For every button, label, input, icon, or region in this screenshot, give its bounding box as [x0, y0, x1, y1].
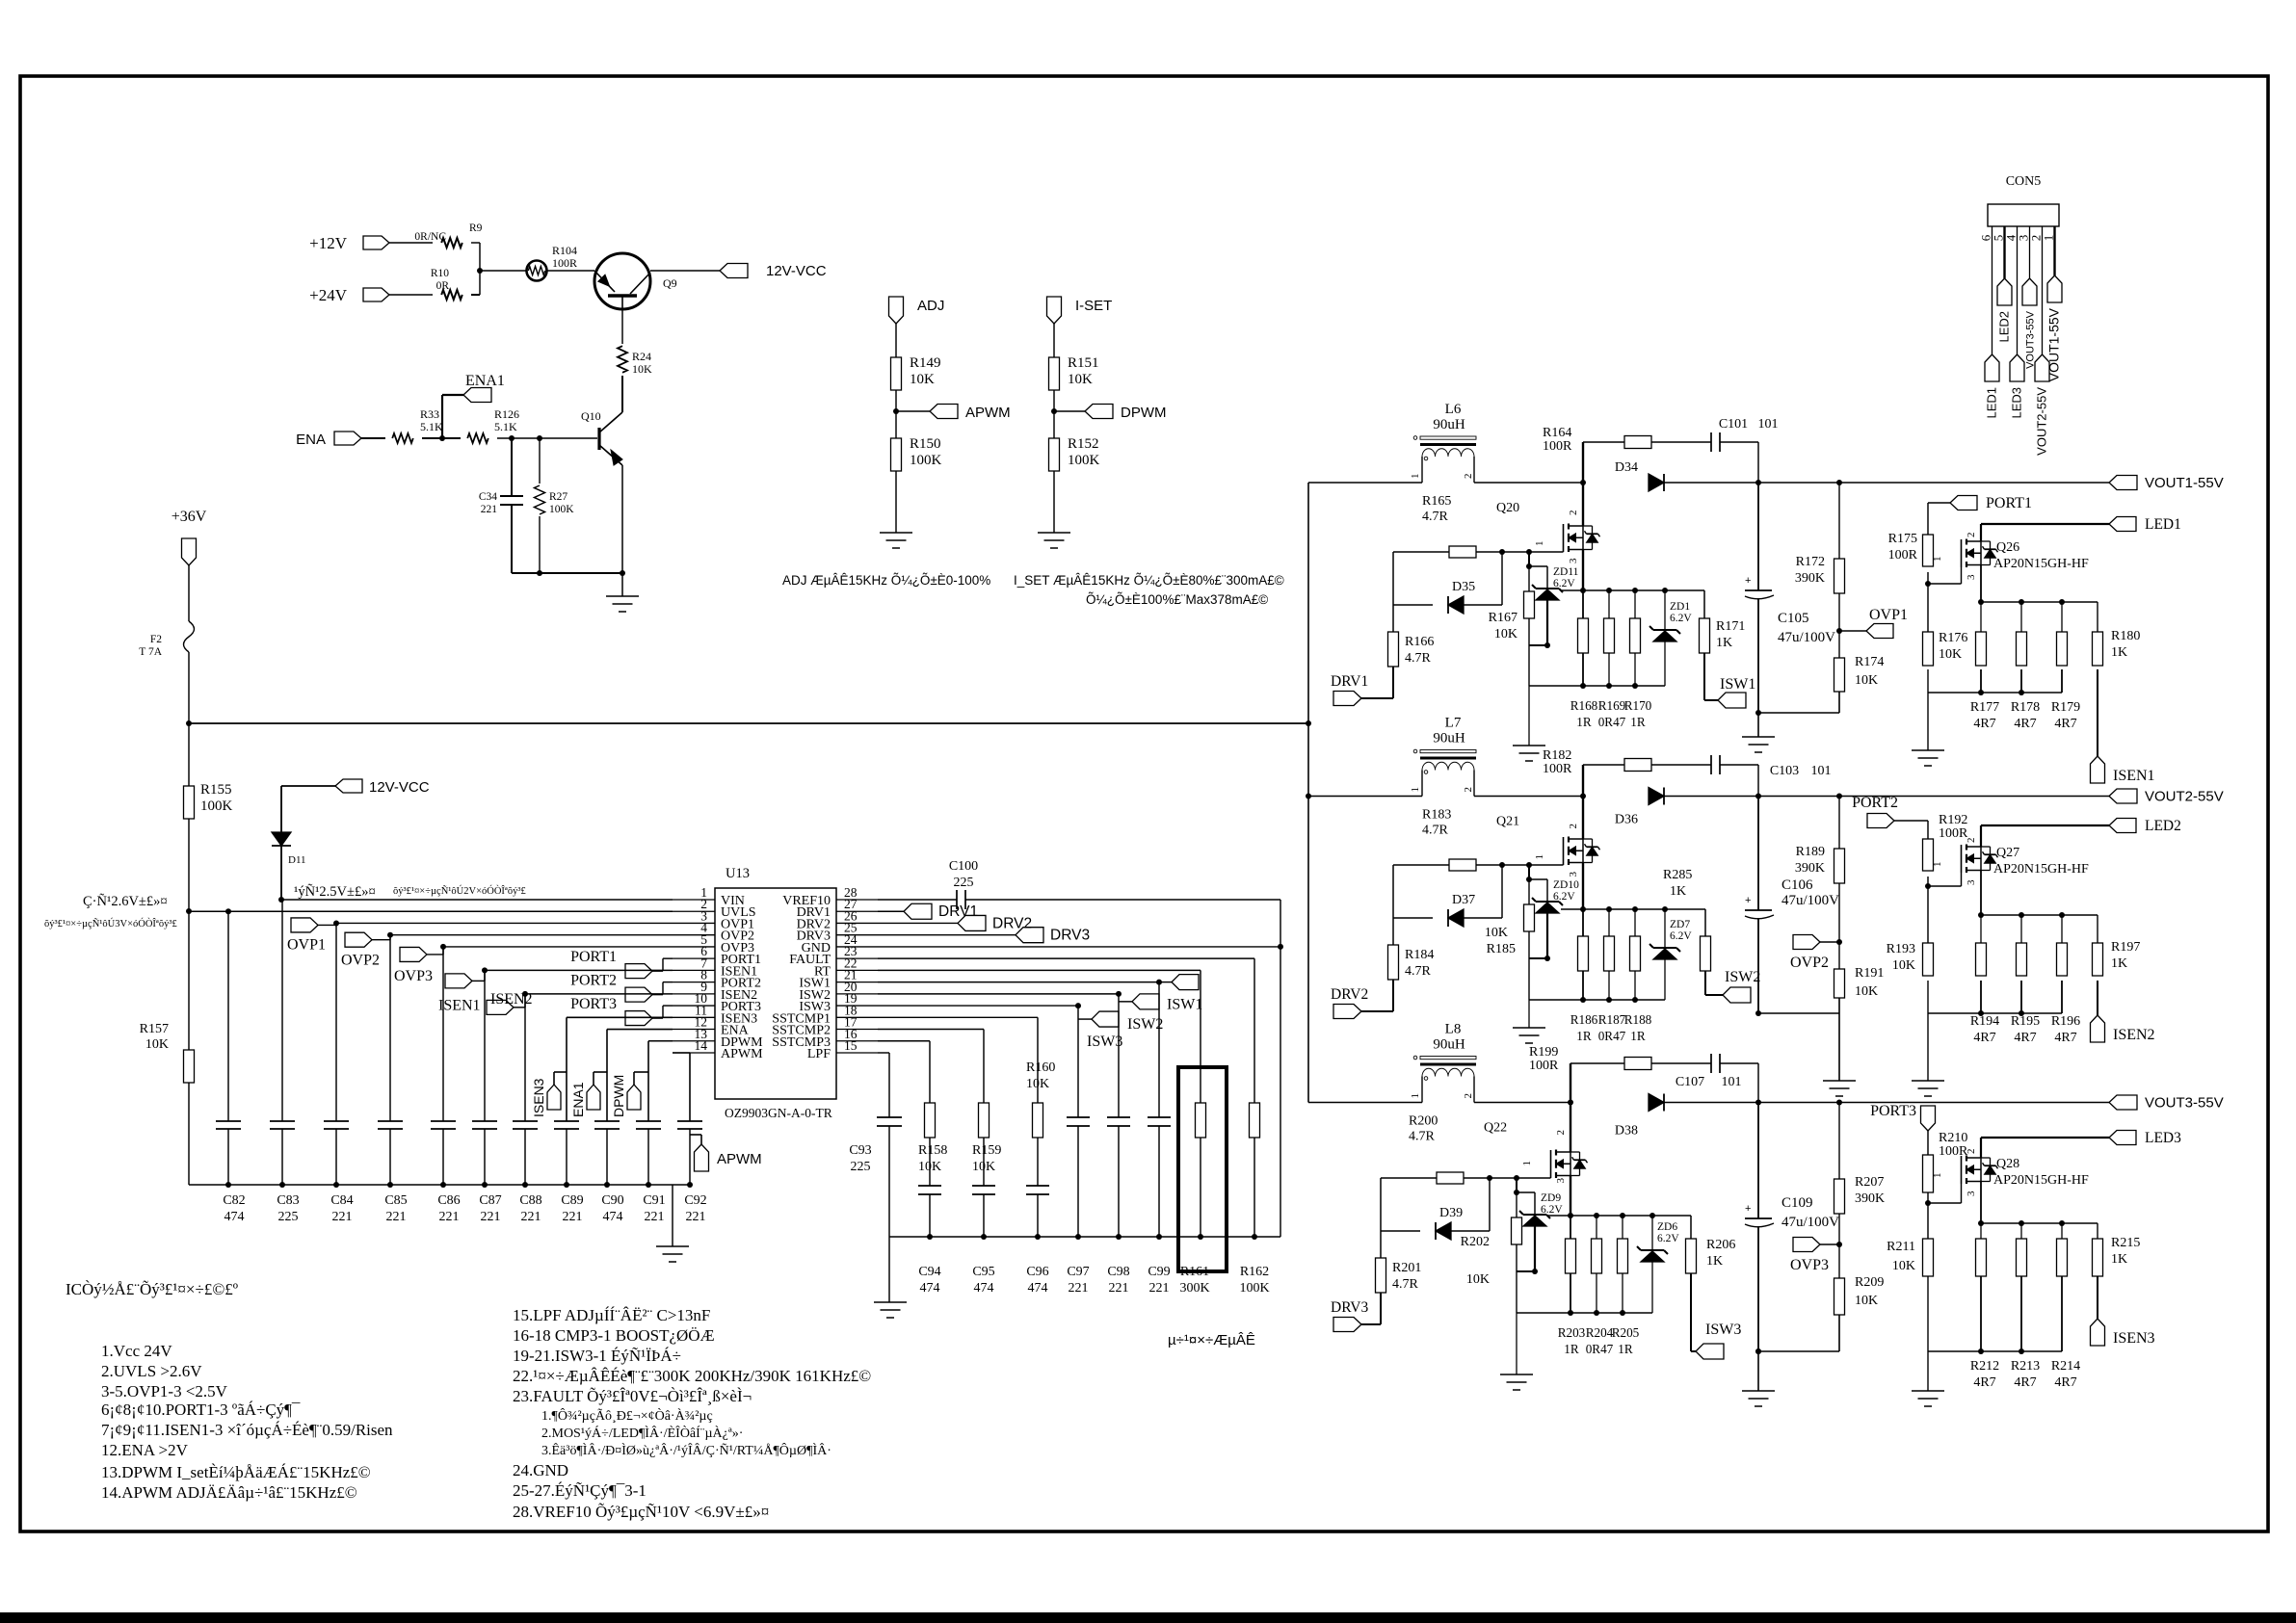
- node bus r2: [1606, 588, 1612, 593]
- svg-text:R149: R149: [910, 355, 941, 371]
- node ISEN1 column: [482, 967, 488, 973]
- diode D34: [1615, 460, 1664, 491]
- wire R180 to ISEN port: [2097, 669, 2098, 756]
- svg-text:100R: 100R: [1939, 1144, 1968, 1159]
- wire output column down: [1757, 483, 1759, 590]
- wire I-SET to R151: [1053, 324, 1055, 357]
- svg-text:C88: C88: [519, 1193, 541, 1208]
- svg-text:0R/NC: 0R/NC: [414, 231, 446, 243]
- wire PORT3 to pin: [652, 1006, 673, 1018]
- svg-text:2: 2: [1568, 510, 1579, 516]
- port PORT3 (channel): [1870, 1103, 1935, 1155]
- port VOUT2-55V: [2109, 789, 2224, 805]
- capacitor C103 101: [1711, 755, 1832, 778]
- wire pin16 to R158: [878, 1041, 930, 1103]
- svg-text:390K: 390K: [1795, 571, 1825, 586]
- svg-text:2: 2: [1568, 824, 1579, 829]
- resistor R158 10K: [918, 1103, 947, 1174]
- svg-text:221: 221: [1149, 1281, 1170, 1296]
- wire pin18 to R160: [878, 1017, 1038, 1103]
- node UVLS at R155/R157: [186, 908, 192, 914]
- svg-text:C87: C87: [479, 1193, 501, 1208]
- svg-text:C103: C103: [1770, 764, 1799, 778]
- node C34 tap: [509, 435, 515, 441]
- svg-text:225: 225: [851, 1160, 871, 1174]
- wire R161 to rail: [1200, 1138, 1201, 1237]
- svg-text:23.FAULT Õý³£Îª0V£¬Òì³£Îª¸ß×è: 23.FAULT Õý³£Îª0V£¬Òì³£Îª¸ß×èÌ¬: [513, 1387, 752, 1405]
- wire lower bus: [1517, 1310, 1652, 1316]
- pin 8 (PORT2) of U13: [673, 968, 761, 991]
- wire R9 to node: [471, 243, 480, 295]
- text pin note R: 2.MOS¹ýÁ÷/LE: [541, 1425, 743, 1441]
- label sense resistors: [1570, 698, 1652, 729]
- node OVP tap: [1836, 1242, 1842, 1247]
- svg-text:C98: C98: [1107, 1265, 1129, 1279]
- svg-text:474: 474: [603, 1210, 623, 1224]
- svg-text:474: 474: [1028, 1281, 1048, 1296]
- svg-text:R10: R10: [431, 268, 449, 279]
- svg-text:2: 2: [1966, 533, 1977, 538]
- svg-text:PORT1: PORT1: [570, 949, 617, 965]
- svg-text:10K: 10K: [1026, 1077, 1049, 1091]
- svg-text:225: 225: [278, 1210, 299, 1224]
- svg-text:10K: 10K: [1485, 926, 1508, 940]
- wire bottom bus (LED): [1928, 1010, 2062, 1016]
- wire OVP3 port to column: [427, 947, 673, 955]
- zener ZD11 6.2V (gate): [1532, 566, 1579, 600]
- capacitor C86 221: [431, 947, 461, 1224]
- svg-text:R175: R175: [1888, 532, 1917, 546]
- svg-text:C95: C95: [972, 1265, 994, 1279]
- svg-text:APWM: APWM: [965, 405, 1011, 421]
- svg-text:ZD7: ZD7: [1670, 919, 1690, 930]
- svg-text:R160: R160: [1026, 1060, 1055, 1075]
- capacitor C91 221: [636, 1121, 666, 1224]
- svg-text:R178: R178: [2011, 700, 2040, 715]
- junction rail x1302: [1252, 1234, 1257, 1240]
- svg-text:µ÷¹¤×÷ÆµÂÊ: µ÷¹¤×÷ÆµÂÊ: [1168, 1332, 1255, 1348]
- resistor R160 10K: [1026, 1060, 1055, 1138]
- wire R176 to bottom bus: [1927, 669, 1929, 750]
- wire FAULT pin23 to R162: [878, 958, 1254, 1103]
- svg-text:474: 474: [974, 1281, 994, 1296]
- svg-text:474: 474: [224, 1210, 245, 1224]
- wire ISEN2 port to column: [514, 994, 673, 1008]
- wire VREF10 pin28: [878, 899, 957, 901]
- port OVP3 (left): [394, 947, 433, 984]
- node drain junction ch1: [1580, 480, 1586, 485]
- pin 23 (FAULT) of U13: [789, 944, 878, 967]
- text I_SET frequency note line1: [1014, 573, 1284, 588]
- wire R189 to OVP node: [1838, 883, 1840, 969]
- junction rail C86: [440, 1182, 446, 1188]
- resistor R182 100R: [1543, 748, 1651, 776]
- pin 19 (ISW3) of U13: [799, 991, 878, 1014]
- pin 26 (DRV2) of U13: [797, 908, 878, 931]
- resistor R210 100R: [1923, 1131, 1969, 1192]
- port VOUT3-55V (CON5): [2022, 278, 2037, 369]
- resistor R188 (sense): [1630, 909, 1641, 1000]
- wire node to DPWM port: [1054, 410, 1085, 412]
- node bus r3: [1632, 906, 1638, 912]
- svg-text:474: 474: [920, 1281, 940, 1296]
- wire link to ground ch1: [1757, 713, 1759, 737]
- node DPWM divider: [1051, 408, 1057, 414]
- wire link to ground ch2: [1838, 1013, 1840, 1081]
- wire MOSFET source to bus: [1580, 863, 1586, 913]
- svg-text:+36V: +36V: [172, 509, 207, 525]
- resistor R205 (sense): [1618, 1216, 1628, 1313]
- pin 3 (OVP1) of U13: [673, 908, 754, 931]
- svg-text:LED3: LED3: [2010, 387, 2024, 419]
- svg-text:R151: R151: [1068, 355, 1099, 371]
- svg-text:6.2V: 6.2V: [1553, 891, 1575, 903]
- port ISEN2 (channel): [2091, 1015, 2155, 1043]
- port ISEN3 (channel): [2091, 1319, 2155, 1347]
- svg-text:OVP1: OVP1: [1869, 607, 1908, 623]
- node +36V bus junction: [186, 720, 192, 726]
- svg-text:Q21: Q21: [1496, 815, 1519, 829]
- svg-text:R211: R211: [1887, 1240, 1915, 1254]
- highlight box around R161: [1178, 1067, 1227, 1271]
- labels parallel 4R7 resistors: [1970, 1014, 2080, 1045]
- junction rail C91: [646, 1182, 651, 1188]
- svg-text:2.MOS¹ýÁ÷/LED¶ÌÂ·/ÈÎÒâÍ¨µÀ¿ª»·: 2.MOS¹ýÁ÷/LED¶ÌÂ·/ÈÎÒâÍ¨µÀ¿ª»·: [541, 1425, 743, 1441]
- svg-text:R212: R212: [1970, 1359, 1999, 1374]
- wire D34 to VOUT junction: [1664, 482, 1839, 484]
- node bus r2: [1594, 1213, 1599, 1218]
- svg-text:C100: C100: [949, 859, 978, 874]
- node ISEN2 column: [522, 991, 528, 997]
- junction +36V bus: [1306, 720, 1311, 726]
- label C94 474: [918, 1265, 940, 1296]
- wire source bus (LED): [1978, 564, 2098, 605]
- svg-text:100R: 100R: [552, 256, 577, 270]
- svg-text:101: 101: [1811, 764, 1832, 778]
- port ISW3 (IC side): [1087, 1011, 1122, 1050]
- label sense resistors: [1570, 1012, 1652, 1043]
- port DRV2 (channel): [1331, 986, 1368, 1019]
- resistor R201 4.7R: [1376, 1258, 1422, 1293]
- svg-text:AP20N15GH-HF: AP20N15GH-HF: [1993, 862, 2089, 877]
- capacitor C87 221: [472, 970, 502, 1224]
- svg-text:R196: R196: [2051, 1014, 2080, 1029]
- transistor Q9 (PNP): [594, 253, 677, 309]
- svg-text:4R7: 4R7: [1973, 1375, 1995, 1390]
- inductor L6 90uH: [1410, 402, 1476, 483]
- svg-text:221: 221: [521, 1210, 541, 1224]
- junction rail x1077: [1035, 1234, 1041, 1240]
- ground below R152: [1038, 533, 1070, 548]
- pin 1 of CON5: [2042, 235, 2056, 242]
- svg-text:R195: R195: [2011, 1014, 2040, 1029]
- port DPWM (hanging): [611, 1072, 648, 1117]
- pin 10 (PORT3) of U13: [673, 991, 761, 1014]
- wire C100 to GND column: [965, 900, 1280, 1237]
- svg-text:1: 1: [1521, 1161, 1533, 1166]
- svg-text:C90: C90: [601, 1193, 623, 1208]
- wire R159 to cap: [983, 1138, 985, 1186]
- svg-text:221: 221: [386, 1210, 407, 1224]
- svg-text:1: 1: [1410, 787, 1421, 793]
- svg-text:ISEN2: ISEN2: [2113, 1027, 2155, 1043]
- svg-text:AP20N15GH-HF: AP20N15GH-HF: [1993, 557, 2089, 571]
- svg-text:1K: 1K: [1716, 636, 1732, 650]
- svg-text:100R: 100R: [1939, 826, 1968, 841]
- resistor R186 (sense): [1578, 909, 1589, 1000]
- pin 7 (ISEN1) of U13: [673, 955, 757, 979]
- ground (output cap) ch3: [1742, 1391, 1775, 1406]
- svg-text:14.APWM ADJÄ£Äâµ÷¹â£¨15KHz£©: 14.APWM ADJÄ£Äâµ÷¹â£¨15KHz£©: [101, 1483, 357, 1502]
- resistor R202 10K (gate): [1461, 1192, 1522, 1287]
- port PORT1 (left): [570, 949, 652, 979]
- svg-text:R169: R169: [1598, 698, 1626, 713]
- port ENA1: [463, 373, 505, 403]
- wire C34/R27 bottoms: [512, 570, 625, 576]
- wire R157 to ground rail: [188, 1083, 190, 1185]
- wire R206 to ISW port: [1691, 1273, 1696, 1351]
- text pin note R: 1.¶Ô¾²µçÃô¸Ð: [541, 1407, 713, 1424]
- svg-text:C107: C107: [1676, 1075, 1704, 1089]
- svg-text:10K: 10K: [632, 362, 652, 376]
- svg-text:C84: C84: [330, 1193, 353, 1208]
- wire gate line: [1393, 551, 1564, 553]
- node gate junction 1: [1499, 862, 1505, 868]
- wire R171 to ISW port: [1704, 653, 1718, 700]
- wire R151 to DPWM node: [1053, 390, 1055, 438]
- capacitor C109 47u/100V (electrolytic): [1745, 1195, 1839, 1230]
- svg-text:ENA1: ENA1: [570, 1082, 586, 1117]
- capacitor below R160: [1026, 1186, 1049, 1237]
- svg-text:R24: R24: [632, 350, 651, 363]
- wire PORT2 to pin: [652, 982, 673, 995]
- svg-text:R182: R182: [1543, 748, 1571, 763]
- svg-text:221: 221: [439, 1210, 460, 1224]
- svg-text:Ç·Ñ¹2.6V±£»¤: Ç·Ñ¹2.6V±£»¤: [83, 894, 168, 909]
- port I-SET: [1047, 297, 1113, 324]
- pin 6 of CON5: [1979, 234, 1993, 241]
- svg-text:PORT2: PORT2: [570, 973, 617, 989]
- svg-text:AP20N15GH-HF: AP20N15GH-HF: [1993, 1173, 2089, 1188]
- svg-text:100R: 100R: [1543, 762, 1572, 776]
- svg-text:1K: 1K: [1670, 884, 1686, 899]
- port LED3: [2109, 1130, 2181, 1146]
- port DRV3 (channel): [1331, 1299, 1368, 1332]
- svg-text:ISW1: ISW1: [1720, 676, 1755, 693]
- svg-text:C34: C34: [479, 491, 497, 503]
- svg-text:10K: 10K: [1939, 647, 1962, 662]
- wire node to APWM port: [896, 410, 930, 412]
- svg-text:R184: R184: [1405, 948, 1434, 962]
- svg-text:C83: C83: [277, 1193, 299, 1208]
- wire left column: [1392, 552, 1394, 632]
- wire column down to cap ENA1: [606, 1030, 608, 1121]
- resistor R152 100K: [1049, 436, 1100, 471]
- port VOUT3-55V: [2109, 1095, 2224, 1112]
- wire pin20 to ISW2 column: [878, 993, 1119, 995]
- svg-text:ISW2: ISW2: [1725, 969, 1760, 985]
- resistor R171 (to ISW): [1700, 590, 1746, 653]
- resistor R285 (to ISW): [1663, 868, 1711, 971]
- svg-text:C97: C97: [1067, 1265, 1089, 1279]
- svg-text:47u/100V: 47u/100V: [1781, 1215, 1839, 1230]
- port LED1 (CON5): [1985, 354, 2000, 419]
- svg-text:100R: 100R: [1888, 548, 1918, 563]
- svg-text:R191: R191: [1855, 966, 1884, 981]
- ground (LED cluster): [1912, 1391, 1944, 1406]
- pin 28 (VREF10) of U13: [782, 885, 878, 908]
- port LED2 (CON5): [1997, 278, 2013, 343]
- svg-text:Q20: Q20: [1496, 501, 1519, 515]
- svg-text:1R: 1R: [1630, 715, 1646, 729]
- junction rail x1203: [1156, 1234, 1162, 1240]
- node OVP1 column: [333, 920, 339, 926]
- node gate junction 1: [1499, 549, 1505, 555]
- svg-text:10K: 10K: [145, 1037, 169, 1052]
- svg-text:4.7R: 4.7R: [1409, 1130, 1436, 1144]
- node output cap column: [1755, 794, 1761, 799]
- resistor R195 4R7: [2017, 915, 2027, 1013]
- wire bottom bus (LED): [1928, 690, 2062, 695]
- diode D35 (gate discharge): [1393, 580, 1502, 614]
- svg-text:R172: R172: [1796, 555, 1825, 569]
- port PORT1 (channel): [1928, 495, 2032, 535]
- wire R150 to ground: [895, 471, 897, 533]
- port ISEN2 (left): [487, 991, 533, 1015]
- wire lower bus: [1529, 683, 1665, 689]
- wire L6 to drain junction: [1474, 482, 1583, 484]
- svg-text:DRV2: DRV2: [992, 915, 1032, 931]
- svg-text:R186: R186: [1570, 1012, 1598, 1027]
- text pin note R: 3.Êä³ö¶ÌÂ·/Ð: [541, 1442, 831, 1458]
- wire SSTCMP/RT rail: [889, 1236, 1280, 1238]
- svg-text:15: 15: [844, 1038, 858, 1053]
- wire CON5 pin 3: [2029, 226, 2031, 278]
- pin 13 (DPWM) of U13: [673, 1027, 763, 1050]
- net note text right: [393, 885, 526, 897]
- wire rail to ground: [672, 1185, 673, 1246]
- diode D37 (gate discharge): [1393, 893, 1502, 927]
- resistor R206 (to ISW): [1686, 1216, 1736, 1273]
- wire R184 to DRV: [1361, 980, 1393, 1011]
- pin 16 (SSTCMP3) of U13: [772, 1027, 878, 1050]
- wire GND pin24: [878, 946, 1280, 948]
- svg-text:R152: R152: [1068, 436, 1099, 452]
- node bus r2: [1606, 906, 1612, 912]
- pin 2 of CON5: [2029, 235, 2044, 242]
- svg-text:OVP1: OVP1: [287, 936, 326, 953]
- resistor R174 10K: [1834, 655, 1885, 692]
- svg-text:C93: C93: [849, 1143, 871, 1158]
- svg-text:221: 221: [1069, 1281, 1089, 1296]
- svg-text:4R7: 4R7: [2054, 1375, 2076, 1390]
- net label overvoltage 2.5V text: [294, 884, 376, 900]
- zener ZD9 6.2V (gate): [1519, 1192, 1563, 1226]
- wire ENA to R33: [361, 437, 385, 439]
- svg-text:3: 3: [1555, 1178, 1567, 1184]
- svg-text:U13: U13: [726, 866, 750, 881]
- node output cap column: [1755, 480, 1761, 485]
- text undervoltage 2.6V: [83, 894, 168, 909]
- svg-text:2: 2: [1463, 787, 1474, 793]
- svg-text:0R47: 0R47: [1598, 715, 1626, 729]
- capacitor C34 221: [479, 438, 523, 573]
- text pin note R: 24.GND: [513, 1461, 568, 1479]
- svg-text:R193: R193: [1887, 942, 1915, 956]
- svg-text:LED2: LED2: [1997, 311, 2012, 343]
- svg-text:221: 221: [332, 1210, 353, 1224]
- node ISW3 column: [1075, 1003, 1081, 1008]
- resistor R184 4.7R: [1388, 945, 1435, 980]
- pin 20 (ISW2) of U13: [799, 980, 878, 1003]
- svg-text:R285: R285: [1663, 868, 1692, 882]
- transistor Q10 (NPN): [581, 409, 622, 465]
- capacitor below R159: [972, 1186, 995, 1237]
- svg-text:Q22: Q22: [1484, 1121, 1507, 1136]
- resistor R199 100R: [1529, 1045, 1651, 1073]
- svg-text:1K: 1K: [2111, 1252, 2127, 1267]
- resistor R213 4R7: [2017, 1223, 2027, 1351]
- port PORT2 (left): [570, 973, 652, 1003]
- junction rail C89: [564, 1182, 569, 1188]
- svg-text:R177: R177: [1970, 700, 1999, 715]
- port DRV1 (channel): [1331, 673, 1368, 706]
- port ENA1 (hanging): [570, 1072, 607, 1117]
- text pin note: 2.UVLS >2.6: [101, 1362, 202, 1380]
- svg-text:L7: L7: [1445, 716, 1462, 731]
- node ENA1 branch: [439, 395, 463, 441]
- wire gate to D37: [1501, 865, 1503, 918]
- svg-text:5.1K: 5.1K: [494, 420, 517, 433]
- wire Q9 base down to R24: [621, 309, 623, 344]
- text pin note R: 25-27.ÉýÑ¹Çý: [513, 1481, 647, 1500]
- node drain junction ch3: [1568, 1100, 1573, 1106]
- wire clamp to lower bus: [1528, 645, 1530, 686]
- wire link to ground ch3: [1757, 1351, 1759, 1391]
- wire R160 to cap: [1037, 1138, 1039, 1186]
- junction rail C84: [333, 1182, 339, 1188]
- svg-text:+: +: [1745, 895, 1751, 906]
- svg-text:47u/100V: 47u/100V: [1781, 893, 1839, 908]
- port 12V-VCC (at D11): [335, 779, 430, 796]
- svg-text:DPWM: DPWM: [1121, 405, 1167, 421]
- wire R152 to ground: [1053, 471, 1055, 533]
- wire R210 to gate junction: [1925, 1184, 1962, 1206]
- port PORT2 (channel): [1852, 795, 1928, 839]
- wire R207 to OVP node: [1838, 1214, 1840, 1278]
- svg-text:DRV1: DRV1: [938, 903, 978, 920]
- ground (driver cluster): [1500, 1374, 1533, 1390]
- node bus zener: [1649, 1213, 1655, 1218]
- svg-text:3: 3: [1966, 1191, 1977, 1196]
- wire R215 to ISEN port: [2097, 1276, 2098, 1319]
- bottom black band: [0, 1612, 2296, 1623]
- transistor Q22 (boost MOSFET): [1409, 1114, 1588, 1184]
- junction rail x1246: [1198, 1234, 1203, 1240]
- wire pin17 to R159: [878, 1030, 984, 1103]
- svg-text:DRV1: DRV1: [1331, 673, 1368, 690]
- resistor R162 100K: [1239, 1103, 1269, 1296]
- node APWM divider: [893, 408, 899, 414]
- wire R162 to rail: [1254, 1138, 1255, 1237]
- wire column to ISW1 port: [1159, 982, 1172, 983]
- svg-text:ISEN1: ISEN1: [2113, 768, 2155, 784]
- svg-text:Q26: Q26: [1996, 540, 2019, 555]
- svg-text:R126: R126: [494, 407, 519, 421]
- label C96 474: [1026, 1265, 1048, 1296]
- junction rail C83: [279, 1182, 285, 1188]
- resistor R209 10K: [1834, 1275, 1885, 1315]
